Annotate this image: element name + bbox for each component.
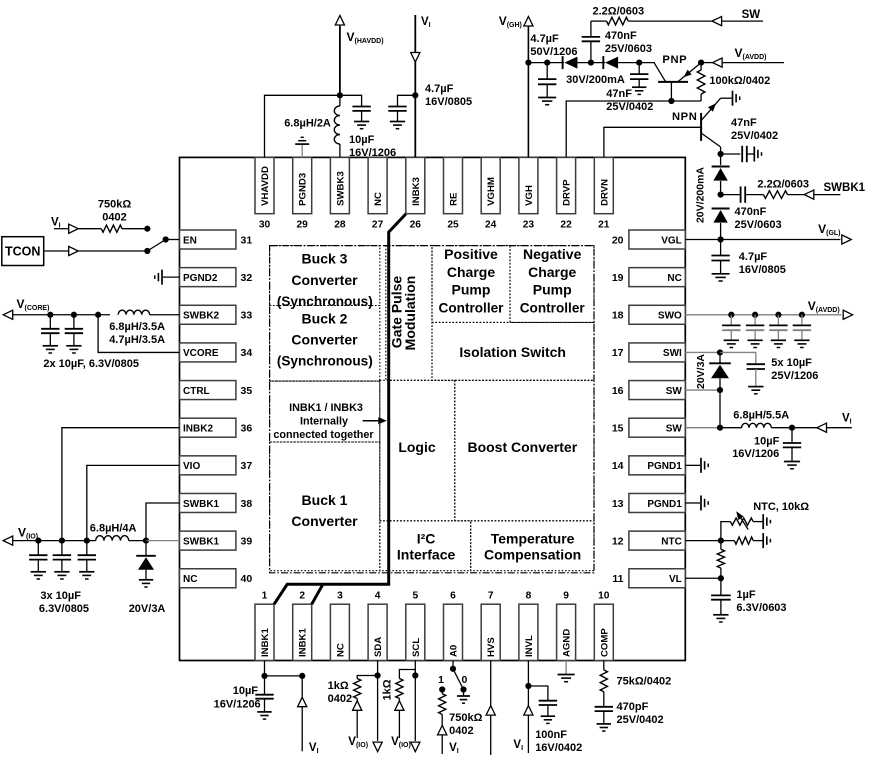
svg-text:4.7µF: 4.7µF: [739, 251, 768, 263]
wire VI to 750k: [54, 228, 69, 230]
svg-text:29: 29: [297, 220, 309, 231]
pin 4 SDA (bottom): [368, 591, 387, 661]
node VL junction: [718, 575, 724, 581]
ground (VIO cap2): [54, 571, 69, 573]
pin 19 NC (right): [612, 268, 685, 287]
pin 24 VGHM (top): [481, 157, 500, 230]
wire SCL pin5 down: [414, 661, 416, 676]
svg-text:750kΩ: 750kΩ: [449, 712, 482, 724]
svg-text:25V/0402: 25V/0402: [731, 130, 778, 142]
ground (AVDD cap 2): [747, 339, 762, 341]
svg-text:2: 2: [299, 591, 305, 602]
svg-text:10µF: 10µF: [754, 436, 780, 448]
capacitor 47nF 25V/0402 (NPN side): [741, 146, 743, 162]
node NPN collector junction: [718, 151, 724, 157]
wire AGND pin9 to ground: [565, 661, 567, 675]
pin 2 INBK1 (bottom): [293, 591, 312, 661]
capacitor 10uF 6.3V/0805 #3 (VIO): [86, 541, 88, 556]
inductor 6.8uH/3.5A (buck2): [118, 310, 149, 315]
svg-text:Buck 1: Buck 1: [302, 492, 348, 508]
pin 26 INBK3 (top): [406, 157, 425, 230]
svg-text:INBK2: INBK2: [183, 424, 213, 435]
node 4.7uF 50V junction: [544, 60, 550, 66]
svg-text:Negative: Negative: [523, 246, 582, 262]
block Buck 1 Converter: [270, 442, 380, 571]
ground (INBK3 cap): [390, 121, 405, 123]
svg-text:NC: NC: [335, 643, 346, 657]
ground (VGL cap): [712, 273, 730, 275]
svg-text:Controller: Controller: [439, 300, 505, 315]
svg-text:50V/1206: 50V/1206: [530, 46, 577, 58]
diode 30V/200mA (left one, pointing left): [562, 56, 564, 69]
svg-text:Converter: Converter: [291, 513, 358, 529]
capacitor 10uF 25V/1206 #1 (AVDD bank): [730, 315, 732, 326]
svg-text:(Synchronous): (Synchronous): [277, 353, 373, 368]
net arrow VI (boost input): [792, 427, 817, 429]
pin 5 SCL (bottom): [406, 591, 425, 661]
transistor NPN: [700, 113, 702, 141]
pin 16 SW (right): [612, 381, 685, 400]
svg-text:22: 22: [560, 220, 572, 231]
svg-text:35: 35: [241, 385, 253, 397]
svg-text:16V/1206: 16V/1206: [732, 448, 779, 460]
svg-text:SWBK3: SWBK3: [335, 171, 346, 206]
pin 33 SWBK2 (left): [180, 305, 253, 324]
net arrow V(AVDD) output: [843, 310, 853, 319]
svg-text:VIO: VIO: [183, 461, 200, 472]
node VI boost junction: [789, 425, 795, 431]
svg-text:7: 7: [488, 591, 494, 602]
wire to 470nF coupling cap: [721, 194, 741, 196]
pin 8 INVL (bottom): [519, 591, 538, 661]
capacitor 4.7uF 16V/0805 (VGL): [720, 240, 722, 256]
svg-text:Temperature: Temperature: [491, 531, 575, 547]
wire SDA line down with arrow: [377, 676, 379, 742]
node INVL junction: [525, 683, 531, 689]
svg-text:40: 40: [241, 573, 253, 585]
svg-text:16: 16: [612, 385, 624, 397]
svg-text:470nF: 470nF: [735, 206, 767, 218]
ground (INVL cap): [541, 715, 555, 717]
open arrow VI down: [411, 53, 420, 63]
svg-text:SWBK1: SWBK1: [183, 536, 220, 547]
ground (INBK1 cap): [257, 711, 271, 713]
wire NPN emitter to ground: [721, 97, 732, 99]
pin 36 INBK2 (left): [180, 418, 253, 437]
ground (47nF): [632, 86, 646, 88]
svg-text:NPN: NPN: [672, 111, 697, 123]
pin 32 PGND2 (left): [180, 268, 253, 287]
pin 13 PGND1 (right): [612, 493, 685, 512]
svg-text:39: 39: [241, 535, 253, 547]
svg-text:NTC, 10kΩ: NTC, 10kΩ: [753, 501, 809, 513]
svg-text:6.8µH/3.5A: 6.8µH/3.5A: [109, 321, 165, 333]
wire HVS pin7 VI input: [490, 661, 492, 756]
ground (A0 position 0): [463, 690, 465, 697]
svg-text:30: 30: [259, 220, 271, 231]
pin 18 SWO (right): [612, 305, 685, 324]
svg-text:TCON: TCON: [5, 245, 40, 259]
wire to 4.7uF cap: [398, 95, 416, 106]
wire VCORE sense to pin34: [98, 315, 179, 353]
node AVDD cap 4 junction: [799, 312, 805, 318]
resistor 75k/0402 (COMP): [600, 670, 607, 692]
node SWI junction: [717, 349, 723, 355]
wire V(IO) rail: [13, 540, 96, 542]
pin 40 NC (left): [180, 569, 253, 588]
wire VIO pin37 drop: [87, 465, 180, 540]
wire PGND1 pin13 to ground: [685, 502, 700, 504]
node AVDD cap 3 junction: [775, 312, 781, 318]
pin 28 SWBK3 (top): [330, 157, 349, 230]
svg-text:RE: RE: [449, 192, 460, 206]
svg-text:750kΩ: 750kΩ: [98, 199, 131, 211]
capacitor 10uF 16V/1206 (INBK1): [264, 676, 266, 695]
pin 35 CTRL (left): [180, 381, 253, 400]
diode 20V/3A (buck1 freewheel): [145, 541, 147, 555]
svg-text:VGL: VGL: [661, 235, 682, 246]
svg-text:18: 18: [612, 310, 624, 322]
node SW15 junction: [717, 425, 723, 431]
open arrow (EN VI): [69, 224, 79, 233]
open arrow (SDA pullup V(IO)): [353, 701, 362, 711]
svg-text:0402: 0402: [102, 212, 126, 224]
wire SW pin16 to junction: [685, 389, 720, 391]
net arrow V(GH) up: [524, 17, 533, 27]
ground (AVDD cap 4): [794, 339, 809, 341]
svg-text:1kΩ: 1kΩ: [328, 680, 349, 692]
svg-text:25V/0603: 25V/0603: [735, 219, 782, 231]
svg-text:6.8µH/5.5A: 6.8µH/5.5A: [733, 410, 789, 422]
capacitor 10uF 25V/1206 #4 (AVDD bank): [801, 315, 803, 326]
capacitor 10uF 16V/1206 (HAVDD): [352, 106, 370, 108]
capacitor 4.7uF 16V/0805 (INBK3): [388, 106, 406, 108]
node SW16 junction: [717, 387, 723, 393]
ground (AVDD cap 1): [724, 339, 739, 341]
svg-text:Converter: Converter: [291, 332, 358, 348]
node V(AVDD) junction: [698, 60, 704, 66]
svg-text:10µF: 10µF: [233, 685, 259, 697]
switch lever A0 to position 0: [453, 669, 464, 690]
net arrow V(HAVDD) output: [339, 26, 341, 96]
resistor 2.2R/0603 (to SW): [591, 20, 607, 22]
svg-text:4.7µH/3.5A: 4.7µH/3.5A: [109, 334, 165, 346]
block Isolation Switch: [432, 322, 594, 380]
ground above pin29 PGND3 (inverted earth): [301, 144, 303, 157]
ground (boost in cap): [784, 461, 800, 463]
svg-text:5: 5: [412, 591, 418, 602]
diode 20V/200mA lower (pointing up): [720, 208, 722, 209]
pin 10 COMP (bottom): [594, 591, 613, 661]
pin 38 SWBK1 (left): [180, 493, 253, 512]
pin 29 PGND3 (top): [293, 157, 312, 230]
ground (VCORE cap1): [43, 345, 58, 347]
ground (NPN emitter, right-facing): [732, 91, 734, 106]
svg-text:connected together: connected together: [273, 429, 374, 441]
svg-text:36: 36: [241, 423, 253, 435]
ground (buck1 diode): [139, 579, 153, 581]
node AVDD cap 2 junction: [752, 312, 758, 318]
svg-text:0402: 0402: [449, 725, 473, 737]
svg-text:16V/0805: 16V/0805: [739, 264, 786, 276]
svg-text:10µF: 10µF: [349, 134, 375, 146]
module outline (dash-dot box): [270, 246, 594, 573]
wire VGH pin to rail: [527, 26, 529, 157]
svg-text:1: 1: [438, 674, 444, 686]
node VGH rail junction: [525, 60, 531, 66]
svg-text:(Synchronous): (Synchronous): [277, 294, 373, 309]
wire NTC junction to fixed resistor: [721, 540, 735, 542]
svg-text:17: 17: [612, 347, 624, 359]
resistor NTC-VL series: [720, 541, 722, 550]
ground (PGND1 pin13, right-facing): [700, 495, 702, 510]
inductor 6.8uH/5.5A (boost): [720, 427, 742, 429]
node VCORE sense junction: [95, 312, 101, 318]
pin 23 VGH (top): [519, 157, 538, 230]
resistor 1k 0402 (SDA pullup): [354, 679, 361, 699]
wire SWO pin18 to V(AVDD) output (gray rail): [685, 314, 841, 316]
svg-text:0402: 0402: [328, 693, 352, 705]
node EN option VI: [144, 226, 150, 232]
svg-text:Pump: Pump: [533, 282, 572, 298]
svg-text:COMP: COMP: [599, 628, 610, 657]
svg-text:INBK1: INBK1: [298, 628, 309, 657]
svg-text:Compensation: Compensation: [484, 547, 581, 563]
wire SWBK1 pin38 drop: [146, 503, 180, 541]
svg-text:47nF: 47nF: [606, 88, 632, 100]
svg-text:16V/0805: 16V/0805: [425, 96, 472, 108]
wire SDA pin4 down: [377, 661, 379, 676]
svg-text:47nF: 47nF: [731, 117, 757, 129]
transistor PNP: [654, 63, 666, 82]
wire rail VGH to diode1: [528, 62, 564, 64]
svg-text:1µF: 1µF: [736, 589, 755, 601]
svg-text:PNP: PNP: [662, 54, 687, 66]
pin 39 SWBK1 (left): [180, 531, 253, 550]
wire SW16 to SW15: [719, 390, 721, 428]
svg-text:PGND3: PGND3: [298, 173, 309, 206]
net arrow SWBK1: [804, 190, 814, 199]
diode 20V/3A boost (pointing up): [719, 352, 721, 363]
svg-text:24: 24: [485, 220, 497, 231]
node INBK3 top junction: [412, 92, 418, 98]
NTC arrow (diagonal): [739, 515, 748, 529]
wire diode2 to PNP node: [618, 62, 655, 64]
wire collector node to diode chain: [720, 154, 722, 165]
capacitor 470nF 25V/0603 (SWBK1 coupling): [740, 186, 742, 202]
svg-text:AGND: AGND: [562, 629, 573, 657]
ground (VIO cap3): [79, 571, 94, 573]
wire SW pin15 to junction: [685, 427, 720, 429]
wire INBK1 pin1 down: [264, 661, 266, 676]
wire to EN pin31: [166, 239, 180, 241]
svg-text:VCORE: VCORE: [183, 348, 219, 359]
wire base junction to 100k: [671, 100, 701, 102]
node A0 position 1: [439, 686, 445, 692]
svg-text:Controller: Controller: [520, 300, 586, 315]
svg-text:6.8µH/2A: 6.8µH/2A: [284, 118, 331, 130]
wire SCL line down with arrow: [414, 676, 416, 742]
svg-text:EN: EN: [183, 235, 197, 246]
inductor 6.8uH/4A (buck1): [96, 536, 129, 541]
ground (PGND2, left-facing): [161, 270, 163, 285]
svg-text:3: 3: [337, 591, 343, 602]
svg-text:20V/200mA: 20V/200mA: [695, 167, 707, 223]
ground (VIO cap1): [31, 571, 46, 573]
thick bus branch to pin 2: [312, 584, 323, 604]
wire A0 pin6 down: [452, 661, 454, 669]
wire NTC pin12 to junction: [685, 540, 721, 542]
open arrow (SCL pullup V(IO)): [395, 701, 404, 711]
svg-text:A0: A0: [449, 645, 460, 657]
svg-text:Converter: Converter: [291, 272, 358, 288]
ground (AVDD cap 3): [771, 339, 786, 341]
open arrow (A0 VI): [438, 725, 447, 735]
svg-text:SWBK1: SWBK1: [824, 182, 866, 194]
svg-text:31: 31: [241, 234, 253, 246]
node AVDD cap 1 junction: [728, 312, 734, 318]
svg-text:VHAVDD: VHAVDD: [260, 166, 271, 206]
svg-text:20V/3A: 20V/3A: [695, 354, 707, 389]
svg-text:16V/1206: 16V/1206: [214, 699, 261, 711]
wire VI input to pin26 INBK3: [414, 15, 416, 95]
pin 17 SWI (right): [612, 343, 685, 362]
block Temperature Compensation: [471, 521, 594, 571]
ground (VL cap): [713, 614, 728, 616]
block Logic: [380, 380, 455, 521]
ground (AVDD cap 5): [748, 386, 763, 388]
svg-text:NTC: NTC: [661, 536, 682, 547]
svg-text:15: 15: [612, 423, 624, 435]
svg-text:Positive: Positive: [444, 246, 498, 262]
thermistor NTC 10k (variable resistor): [730, 518, 753, 525]
svg-text:0: 0: [461, 674, 467, 686]
node INBK1 pin2 junction: [299, 673, 305, 679]
wire to 47nF cap: [721, 153, 741, 155]
wire to 10uF cap: [340, 95, 362, 106]
svg-text:27: 27: [372, 220, 384, 231]
svg-text:21: 21: [598, 220, 610, 231]
svg-text:4: 4: [375, 591, 381, 602]
ground (47nF NPN, right-facing): [753, 147, 755, 162]
wire DRVP pin22 to PNP base: [566, 101, 671, 157]
pin 25 RE (top): [444, 157, 463, 230]
resistor 1k 0402 (SCL pullup): [396, 679, 403, 699]
wire INVL pin8 down: [527, 661, 529, 754]
capacitor 10uF 6.3V/0805 #1 (VIO): [37, 541, 39, 556]
wire between 200mA diodes: [720, 181, 722, 195]
svg-text:28: 28: [334, 220, 346, 231]
capacitor 10uF 25V/1206 #3 (AVDD bank): [777, 315, 779, 326]
svg-text:Charge: Charge: [447, 264, 495, 280]
pin 20 VGL (right): [612, 230, 685, 249]
svg-text:NC: NC: [667, 273, 681, 284]
svg-text:VGH: VGH: [524, 185, 535, 206]
svg-text:25: 25: [447, 220, 459, 231]
node SWBK1 coupling junction: [718, 192, 724, 198]
diode 20V/200mA upper (pointing up): [712, 166, 730, 168]
svg-text:11: 11: [612, 573, 623, 585]
svg-text:2.2Ω/0603: 2.2Ω/0603: [757, 179, 809, 191]
svg-text:6.8µH/4A: 6.8µH/4A: [90, 523, 137, 535]
wire pin1-pin2 link: [265, 675, 303, 677]
svg-text:SW: SW: [742, 9, 761, 21]
capacitor 10uF 25V/1206 #2 (AVDD bank): [754, 315, 756, 326]
node INBK1 cap junction: [261, 673, 267, 679]
switch lever TCON->EN: [147, 240, 165, 252]
svg-text:SWBK2: SWBK2: [183, 311, 220, 322]
arrow from note to INBK bus: [363, 420, 380, 422]
svg-text:5x 10µF: 5x 10µF: [771, 357, 812, 369]
inductor 6.8uH/2A (buck3): [339, 95, 341, 106]
svg-text:SW: SW: [666, 424, 683, 435]
svg-text:470pF: 470pF: [617, 701, 649, 713]
pin 6 A0 (bottom): [444, 591, 463, 661]
svg-text:23: 23: [523, 220, 535, 231]
wire COMP pin10 down: [603, 661, 605, 670]
node VIO cap1: [35, 538, 41, 544]
pin 1 INBK1 (bottom): [255, 591, 274, 661]
pin 9 AGND (bottom): [557, 591, 576, 661]
svg-text:PGND2: PGND2: [183, 273, 218, 284]
node 470nF branch junction: [588, 60, 594, 66]
svg-text:VGHM: VGHM: [486, 177, 497, 206]
node SWBK1 ext junction: [143, 538, 149, 544]
svg-text:14: 14: [612, 460, 624, 472]
capacitor 10uF 16V/1206 (boost in): [791, 428, 793, 443]
node A0 position 0: [460, 686, 466, 692]
svg-text:SCL: SCL: [411, 638, 422, 657]
net arrow V(AVDD) input: [701, 62, 713, 64]
node SCL junction: [412, 672, 418, 678]
block Buck 3 Converter (Synchronous): [270, 246, 380, 310]
svg-text:8: 8: [526, 591, 532, 602]
svg-text:PGND1: PGND1: [647, 461, 682, 472]
note INBK1/INBK3 internally connected together: [270, 381, 380, 442]
svg-text:30V/200mA: 30V/200mA: [566, 74, 625, 86]
svg-text:3x 10µF: 3x 10µF: [40, 590, 81, 602]
capacitor 10uF 25V/1206 #5 (AVDD bank): [747, 363, 765, 365]
wire pin30 VHAVDD to HAVDD rail: [265, 95, 340, 157]
resistor 100k/0402: [700, 94, 702, 101]
pin 22 DRVP (top): [557, 157, 576, 230]
ground (VCORE cap2): [66, 345, 81, 347]
pin 30 VHAVDD (top): [255, 157, 274, 230]
node EN switch common: [163, 236, 169, 242]
svg-text:4.7µF: 4.7µF: [425, 83, 454, 95]
wire SCL pullup branch: [399, 670, 415, 679]
svg-text:Buck 2: Buck 2: [302, 311, 348, 327]
pin 3 NC (bottom): [330, 591, 349, 661]
svg-text:16V/1206: 16V/1206: [349, 147, 396, 159]
svg-text:DRVN: DRVN: [599, 179, 610, 206]
svg-text:34: 34: [241, 347, 253, 359]
svg-text:INBK3: INBK3: [411, 177, 422, 206]
ground (4.7uF 50V): [538, 97, 556, 99]
pin 11 VL (right): [612, 569, 685, 588]
ground (NTC parallel resistor, right-facing): [762, 533, 764, 548]
node EN option TCON: [144, 248, 150, 254]
svg-text:2x 10µF, 6.3V/0805: 2x 10µF, 6.3V/0805: [43, 358, 139, 370]
node HAVDD junction: [337, 92, 343, 98]
svg-text:12: 12: [612, 535, 624, 547]
wire PGND1 pin14 to ground: [685, 464, 700, 466]
wire V(CORE) rail: [13, 314, 110, 316]
wire diode to VGL rail: [720, 223, 722, 240]
wire INBK2 pin36 drop: [62, 428, 180, 541]
capacitor 4.7uF 50V/1206: [546, 63, 548, 80]
block Positive Charge Pump Controller: [432, 246, 510, 323]
